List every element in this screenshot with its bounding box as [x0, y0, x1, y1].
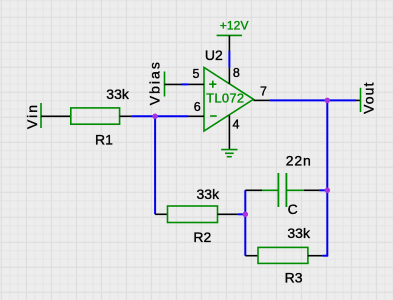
- svg-text:Vin: Vin: [24, 103, 40, 129]
- wire pin 7 to Vout: [269, 99, 356, 101]
- svg-text:Vbias: Vbias: [147, 60, 163, 105]
- wire node A down: [154, 116, 156, 214]
- wire node B vertical: [244, 190, 246, 255]
- pin wire R1 right: [120, 115, 132, 117]
- junction node A: [152, 114, 158, 120]
- power +12V: [217, 19, 249, 52]
- svg-text:5: 5: [193, 67, 200, 81]
- wire C to output drop: [319, 189, 327, 191]
- svg-text:7: 7: [260, 85, 267, 99]
- svg-text:+12V: +12V: [220, 19, 249, 33]
- pin 7: [254, 85, 270, 101]
- pin wire Vbias: [165, 83, 182, 85]
- pin 8: [229, 66, 240, 84]
- wire R3 left: [245, 255, 258, 257]
- wire +12V to pin 8: [228, 51, 230, 67]
- svg-text:22n: 22n: [286, 153, 312, 169]
- junction output node: [325, 98, 331, 104]
- svg-text:Vout: Vout: [360, 81, 376, 113]
- svg-text:U2: U2: [205, 47, 223, 63]
- pin wire C left: [245, 189, 262, 191]
- ground: [221, 150, 237, 157]
- svg-text:TL072: TL072: [206, 90, 244, 105]
- svg-text:R2: R2: [193, 229, 211, 245]
- resistor R1: [71, 86, 130, 148]
- resistor R3: [258, 225, 311, 285]
- wire R1 to pin 6: [131, 115, 188, 117]
- wire R3 to output drop: [322, 255, 328, 257]
- svg-text:4: 4: [233, 118, 240, 132]
- op-amp U2 TL072: [204, 47, 254, 131]
- capacitor C: [262, 153, 312, 218]
- wire output down: [326, 100, 328, 255]
- port Vbias: [147, 60, 165, 105]
- pin 6: [188, 100, 204, 116]
- port Vin: [24, 103, 41, 129]
- wire R2 left: [155, 213, 167, 215]
- wire Vin to R1: [41, 115, 71, 117]
- resistor R2: [168, 186, 221, 245]
- junction node B: [243, 212, 249, 218]
- pin wire R2 right: [218, 213, 238, 215]
- svg-text:R3: R3: [285, 269, 303, 285]
- svg-text:C: C: [288, 201, 298, 217]
- pin wire C right: [304, 189, 319, 191]
- svg-text:33k: 33k: [287, 225, 311, 241]
- pin wire Vout: [356, 99, 361, 101]
- pin 5: [189, 67, 204, 84]
- svg-text:33k: 33k: [106, 86, 130, 102]
- pin wire R3 right: [308, 255, 323, 257]
- svg-text:8: 8: [233, 66, 240, 80]
- svg-text:R1: R1: [95, 132, 113, 148]
- junction cap node: [325, 188, 331, 194]
- port Vout: [360, 81, 376, 113]
- svg-text:6: 6: [194, 100, 201, 114]
- wire Vbias to pin 5: [181, 83, 189, 85]
- pin 4: [229, 115, 239, 149]
- wire R2 to node B: [238, 213, 246, 215]
- svg-text:33k: 33k: [197, 186, 221, 202]
